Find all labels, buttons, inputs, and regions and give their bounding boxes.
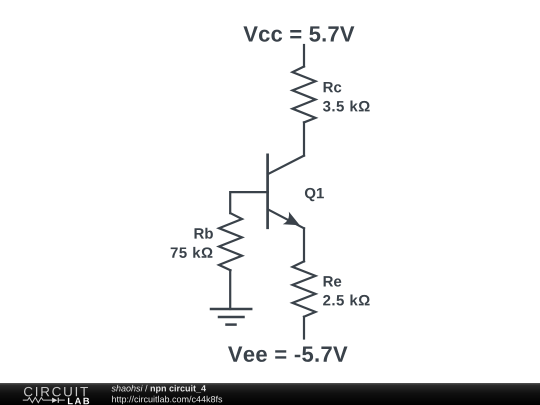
label Rc value 3.5 kOhm: [323, 101, 370, 112]
label Rb value 75 kOhm: [171, 247, 213, 258]
wire Rc to Q1 collector: [303, 122, 305, 155]
wire Q1 emitter to Re: [303, 228, 305, 261]
CircuitLab logo wordmark LAB: [68, 398, 89, 404]
ground: [211, 309, 251, 325]
footer credit line: [112, 385, 206, 393]
transistor Q1 emitter arrow: [283, 212, 300, 226]
wire Re to Vee: [303, 317, 305, 339]
label Rb: [195, 228, 213, 239]
CircuitLab logo resistor-diode glyph: [23, 398, 65, 403]
transistor Q1 emitter lead: [268, 209, 304, 228]
net label Vee = -5.7V: [228, 347, 348, 362]
wire Vcc to Rc top: [303, 45, 305, 67]
wire Rb to ground: [229, 270, 231, 309]
label Re: [324, 276, 342, 286]
resistor Re: [293, 261, 316, 316]
CircuitLab logo wordmark CIRCUIT: [24, 387, 88, 397]
net label Vcc = 5.7V: [243, 26, 354, 41]
footer url line: [112, 396, 222, 404]
label Rc: [324, 82, 342, 92]
transistor Q1 base bar: [266, 155, 269, 228]
resistor Rb: [219, 213, 242, 270]
wire Q1 base to Rb: [230, 192, 268, 213]
label Q1: [305, 188, 324, 201]
resistor Rc: [293, 67, 316, 123]
label Re value 2.5 kOhm: [323, 295, 370, 306]
transistor Q1 collector lead: [268, 156, 304, 175]
